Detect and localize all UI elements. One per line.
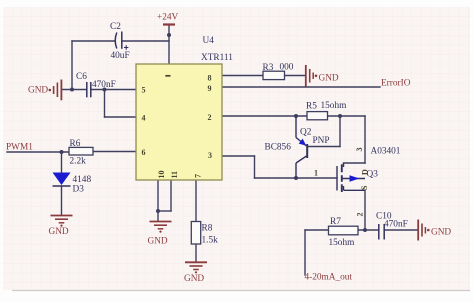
Q3 body stub with arrow: [342, 178, 365, 180]
svg-text:R5: R5: [306, 102, 317, 112]
resistor R6: [69, 147, 93, 155]
wire pin3 drop: [254, 156, 256, 178]
svg-text:BC856: BC856: [265, 143, 292, 153]
ground symbol below R8: [185, 262, 207, 269]
svg-text:GND: GND: [431, 228, 451, 238]
svg-text:7: 7: [194, 174, 203, 178]
svg-text:15ohm: 15ohm: [321, 101, 348, 111]
svg-text:PWM1: PWM1: [6, 143, 33, 153]
svg-text:Q2: Q2: [300, 128, 312, 138]
wire pin10 stub: [157, 180, 159, 221]
svg-text:C2: C2: [110, 22, 121, 32]
capacitor C10: [379, 224, 384, 240]
junction node pins 10-11: [156, 209, 160, 213]
wire output drop: [304, 230, 306, 275]
wire R8 to gnd: [195, 244, 197, 262]
wire PWM1 to R6: [7, 151, 69, 153]
svg-text:000: 000: [280, 63, 294, 73]
wire Q2 base horizontal: [308, 146, 341, 148]
wire pin3 horizontal: [222, 155, 255, 157]
wire C2 left drop to gnd row: [71, 41, 73, 90]
wire gnd to C6: [62, 89, 87, 91]
junction node C6/pin4 branch: [103, 88, 107, 92]
svg-text:Q3: Q3: [367, 170, 379, 180]
wire pin7 stub: [195, 180, 197, 222]
junction node Q3 source / R7: [363, 228, 367, 232]
svg-text:470nF: 470nF: [384, 220, 408, 230]
svg-text:8: 8: [208, 74, 212, 83]
svg-text:3: 3: [208, 151, 212, 160]
svg-text:15ohm: 15ohm: [329, 238, 356, 248]
capacitor C2: [115, 32, 122, 49]
svg-text:GND: GND: [148, 237, 168, 247]
junction node at +24V stem: [167, 33, 171, 37]
wire Q3 source vertical to R7 node: [364, 190, 366, 230]
wire R3 to gnd: [285, 75, 306, 77]
Q2 emitter arrow: [299, 139, 307, 146]
svg-text:R7: R7: [330, 217, 341, 227]
Q3 gate bar: [336, 166, 338, 191]
svg-text:4: 4: [142, 114, 146, 123]
wire pin4 branch horizontal: [105, 116, 137, 118]
svg-text:11: 11: [170, 171, 179, 179]
ground symbol below D3: [51, 216, 73, 223]
svg-text:A03401: A03401: [371, 147, 401, 157]
svg-text:R8: R8: [202, 224, 213, 234]
svg-text:2: 2: [208, 113, 212, 122]
svg-text:2: 2: [356, 213, 365, 217]
wire pin9 to ErrorIO: [222, 86, 380, 88]
svg-text:470nF: 470nF: [92, 80, 116, 90]
Q3 channel segment bottom: [341, 184, 343, 192]
Q3 channel segment middle: [341, 175, 343, 182]
transistor Q2 (PNP): [296, 116, 307, 178]
pin 1 mark (rotated): [165, 75, 170, 77]
junction node PWM1/D3: [60, 150, 64, 154]
wire pin4 branch vertical: [104, 90, 106, 118]
wire +24V stem: [168, 25, 170, 64]
wire pin11 stub: [170, 180, 172, 211]
svg-text:1.5k: 1.5k: [202, 236, 219, 246]
junction node C2/gnd row: [70, 88, 74, 92]
wire R7 row: [305, 229, 378, 231]
junction node R5 left / Q2 emitter: [294, 114, 298, 118]
svg-text:1: 1: [314, 169, 318, 178]
Q3 body arrow: [350, 175, 360, 182]
ground symbol (sideways) right of C10: [418, 220, 425, 241]
ground symbol below pins 10/11: [150, 222, 172, 229]
svg-text:ErrorIO: ErrorIO: [381, 79, 411, 89]
C2 plus mark: [124, 45, 128, 49]
svg-text:3: 3: [355, 148, 364, 152]
junction node gate / Q2 collector: [294, 176, 298, 180]
Q3 channel segment top: [341, 164, 343, 172]
resistor R5: [307, 112, 328, 120]
wire Q2 base vertical from R5 right: [339, 116, 341, 147]
wire R6 to pin6: [93, 151, 136, 153]
op-amp / IC U4 body: [136, 64, 222, 180]
resistor R3: [263, 71, 285, 79]
wire Q3 drain horizontal: [344, 162, 366, 164]
svg-text:4148: 4148: [73, 175, 92, 185]
svg-text:10: 10: [157, 171, 166, 179]
wire C2 row left segment: [72, 40, 114, 42]
svg-text:40uF: 40uF: [111, 51, 130, 61]
svg-text:C6: C6: [76, 72, 87, 82]
wire C6 to pin5: [91, 89, 136, 91]
svg-text:+24V: +24V: [157, 13, 179, 23]
wire gate net: [255, 177, 338, 179]
wire R5 to Q3 drain net: [328, 115, 366, 117]
svg-text:4-20mA_out: 4-20mA_out: [305, 273, 353, 283]
ground symbol (sideways) right of R3: [306, 65, 313, 87]
capacitor C6: [87, 82, 91, 97]
svg-text:D3: D3: [73, 185, 85, 195]
svg-text:5: 5: [142, 86, 146, 95]
wire D3 anode drop: [61, 152, 63, 173]
Q3 source stub: [343, 186, 345, 190]
wire pin11 to pin10 join: [158, 210, 171, 212]
Q3 drain stub: [343, 163, 345, 167]
ground symbol (sideways) at C6: [54, 80, 62, 101]
svg-text:GND: GND: [49, 227, 69, 237]
svg-text:GND: GND: [28, 86, 48, 96]
transistor Q3 (P-MOSFET): [337, 163, 365, 192]
power symbol +24V bar: [163, 23, 175, 25]
svg-text:R3: R3: [263, 63, 274, 73]
svg-text:9: 9: [208, 84, 212, 93]
svg-text:GND: GND: [184, 274, 204, 284]
junction node R5 right / Q2 base: [338, 114, 342, 118]
wire C10 to gnd: [385, 229, 418, 231]
svg-text:R6: R6: [70, 139, 81, 149]
wire pin2 to R5: [222, 115, 307, 117]
bottom scan edge line: [12, 290, 470, 292]
resistor R7: [329, 226, 359, 235]
svg-text:2.2k: 2.2k: [70, 157, 87, 167]
diode D3: [53, 173, 71, 186]
svg-text:S: S: [360, 185, 369, 190]
wire pin8 to R3: [222, 75, 263, 77]
wire Q3 drain vertical: [364, 116, 366, 163]
svg-text:XTR111: XTR111: [201, 53, 233, 63]
svg-text:GND: GND: [319, 74, 339, 84]
wire D3 cathode to gnd: [61, 186, 63, 215]
svg-text:U4: U4: [203, 36, 215, 46]
wire C2 row right segment: [122, 40, 169, 42]
resistor R8 (vertical): [191, 222, 200, 245]
svg-text:6: 6: [142, 148, 146, 157]
svg-text:PNP: PNP: [313, 136, 330, 146]
